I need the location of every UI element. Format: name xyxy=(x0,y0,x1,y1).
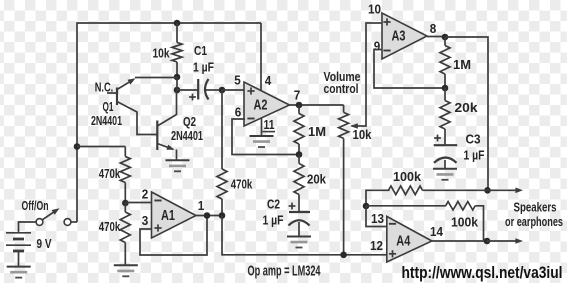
transistor Q2 collector xyxy=(157,90,176,126)
capacitor C3 plus sign xyxy=(434,135,441,142)
node bottom rail pot junction xyxy=(340,252,347,259)
label Off/On xyxy=(22,198,49,213)
svg-text:13: 13 xyxy=(371,211,384,226)
svg-text:1 µF: 1 µF xyxy=(263,213,284,228)
svg-text:470k: 470k xyxy=(99,166,121,181)
wire A3 output to right drop xyxy=(445,37,488,190)
node divider midpoint xyxy=(122,200,129,207)
label 100k feedback xyxy=(451,215,479,230)
label Q2 xyxy=(183,114,196,129)
transistor Q2 emitter xyxy=(157,144,176,162)
op-amp A2 minus sign xyxy=(247,118,254,120)
resistor 1M (A2) xyxy=(294,105,304,155)
svg-text:100k: 100k xyxy=(393,169,422,184)
capacitor C3 curved plate xyxy=(434,158,457,163)
label 470k middle xyxy=(231,177,253,192)
svg-text:20k: 20k xyxy=(307,172,327,187)
svg-text:A2: A2 xyxy=(254,97,268,114)
capacitor C1 wire right xyxy=(206,89,222,91)
op-amp A3 minus sign xyxy=(383,50,390,52)
ground below divider xyxy=(114,265,138,276)
resistor 20k (A2) xyxy=(294,155,304,213)
label 100k upper xyxy=(393,169,422,184)
label C2 1uF xyxy=(263,213,284,228)
ground below Q2 xyxy=(166,160,190,171)
svg-text:N.C.: N.C. xyxy=(95,80,114,95)
svg-text:Op amp = LM324: Op amp = LM324 xyxy=(248,263,321,280)
wire A3 pin 10 stub xyxy=(366,22,382,24)
node A4 inverting input xyxy=(363,203,370,210)
transistor Q1 emitter xyxy=(117,102,157,135)
op-amp A1 minus sign xyxy=(154,200,161,202)
wire battery to switch xyxy=(19,222,37,233)
svg-text:9 V: 9 V xyxy=(37,236,52,251)
op-amp U3 A4 xyxy=(387,216,432,262)
label 20k (A2) xyxy=(307,172,327,187)
label pin 9 xyxy=(374,39,381,54)
label 10k xyxy=(153,46,171,61)
capacitor C1 plus sign xyxy=(189,94,196,101)
wire speaker arrow 2 xyxy=(487,238,523,244)
svg-text:470k: 470k xyxy=(99,219,121,234)
resistor 470k upper xyxy=(120,147,130,204)
wire A1 output down to bottom rail xyxy=(221,216,223,256)
svg-text:Q2: Q2 xyxy=(183,114,196,129)
label pin 1 xyxy=(198,198,205,213)
node C1 to A2 pin5 xyxy=(219,87,226,94)
label pin 2 xyxy=(142,187,149,202)
svg-text:1: 1 xyxy=(198,198,205,213)
svg-text:10: 10 xyxy=(368,2,381,17)
ground below C3 xyxy=(433,169,457,180)
potentiometer 10k volume xyxy=(339,105,349,255)
svg-text:1 µF: 1 µF xyxy=(193,60,214,75)
op-amp U2 A3 xyxy=(382,13,427,59)
svg-text:C1: C1 xyxy=(194,43,207,58)
node C1 input junction xyxy=(174,87,181,94)
label Speakers xyxy=(514,200,557,215)
resistor 100k upper xyxy=(389,186,489,195)
wire A2 pin 11 to ground xyxy=(261,118,263,137)
svg-text:control: control xyxy=(324,81,359,96)
node junction top rail to 10k xyxy=(174,20,181,27)
svg-text:2N4401: 2N4401 xyxy=(171,128,203,143)
op-amp A3 plus sign xyxy=(383,18,390,25)
pot wiper arrow xyxy=(350,22,366,129)
svg-text:470k: 470k xyxy=(231,177,253,192)
switch arm xyxy=(43,208,60,220)
wire bottom rail xyxy=(222,254,386,256)
label C3 xyxy=(466,132,481,147)
node A2 output xyxy=(296,102,303,109)
capacitor C2 curved plate xyxy=(289,220,310,225)
wire top supply rail xyxy=(77,22,261,24)
resistor 20k (A3) xyxy=(440,88,450,146)
label C2 xyxy=(267,197,280,212)
svg-text:8: 8 xyxy=(430,21,437,36)
node A4 output xyxy=(484,238,491,245)
svg-text:5: 5 xyxy=(234,73,241,88)
label 1M (A3) xyxy=(453,57,471,72)
label C3 1uF xyxy=(464,148,485,163)
label Q2 2N4401 xyxy=(171,128,203,143)
wire A3 output xyxy=(427,36,445,38)
op-amp A4 minus sign xyxy=(389,223,396,225)
label pin 12 xyxy=(370,238,383,253)
wire A1 pin3 feedback xyxy=(140,216,207,256)
node A3 output xyxy=(442,34,449,41)
capacitor C3 flat plate xyxy=(434,144,458,146)
label pin 10 xyxy=(368,2,381,17)
svg-text:2: 2 xyxy=(142,187,149,202)
capacitor C2 flat plate xyxy=(289,211,310,213)
svg-text:2N4401: 2N4401 xyxy=(91,113,122,128)
label or earphones xyxy=(505,214,563,229)
label pin 14 xyxy=(430,224,444,239)
wire A1 output xyxy=(196,215,222,217)
svg-text:A3: A3 xyxy=(392,28,406,45)
svg-text:http://www.qsl.net/va3iul: http://www.qsl.net/va3iul xyxy=(402,263,563,282)
svg-text:11: 11 xyxy=(264,117,275,132)
svg-text:Off/On: Off/On xyxy=(22,198,49,213)
svg-text:A4: A4 xyxy=(396,233,410,250)
svg-text:12: 12 xyxy=(370,238,383,253)
wire speaker arrow 1 xyxy=(488,188,524,194)
op-amp A1 plus sign xyxy=(154,224,161,231)
label pin 6 xyxy=(235,105,242,120)
capacitor C2 plus sign xyxy=(289,203,296,210)
label pin 7 xyxy=(294,88,301,103)
label url http://www.qsl.net/va3iul xyxy=(402,263,563,282)
svg-text:1 µF: 1 µF xyxy=(464,148,485,163)
battery B1 9V xyxy=(6,233,31,267)
capacitor C1 curved plate xyxy=(205,79,209,100)
op-amp U1 A2 xyxy=(244,82,290,126)
svg-text:A1: A1 xyxy=(161,207,175,224)
wire A4 output xyxy=(431,240,487,242)
svg-text:1M: 1M xyxy=(453,57,471,72)
wire A2 output xyxy=(290,104,344,106)
wire corner to A4 node xyxy=(365,190,367,207)
ground below battery xyxy=(7,267,31,278)
wire A4 node to pin 13 xyxy=(366,206,386,227)
transistor Q1 base bar xyxy=(116,88,118,106)
node Q1 collector junction xyxy=(174,74,181,81)
resistor R 10k xyxy=(172,23,182,78)
label pin 8 xyxy=(430,21,437,36)
label N.C. xyxy=(95,80,114,95)
wire A2 pin 4 supply xyxy=(260,23,262,90)
capacitor C2 wire to ground xyxy=(298,222,300,237)
capacitor C3 wire to ground xyxy=(444,160,446,170)
wire C1 node down to 470k xyxy=(221,90,223,169)
wire A4 node to 100k feedback xyxy=(366,205,446,207)
wire speaker line 1 left xyxy=(366,189,390,191)
svg-text:6: 6 xyxy=(235,105,242,120)
resistor 470k middle xyxy=(217,169,227,216)
transistor Q1 collector xyxy=(117,78,177,90)
svg-text:10k: 10k xyxy=(353,127,373,142)
wire C1 node to A2 pin 5 xyxy=(222,89,245,91)
label pin 11 xyxy=(263,117,276,132)
label Volume xyxy=(324,69,361,84)
node left rail junction xyxy=(74,143,81,150)
label Q1 xyxy=(103,99,114,114)
wire rail between junctions xyxy=(176,77,178,91)
label C1 xyxy=(194,43,207,58)
label 470k lower xyxy=(99,219,121,234)
label pin 5 xyxy=(234,73,241,88)
label 20k (A3) xyxy=(455,100,479,115)
ground below C2 xyxy=(287,237,311,248)
node speaker line 1 xyxy=(484,187,491,194)
svg-text:14: 14 xyxy=(430,224,444,239)
svg-text:4: 4 xyxy=(265,73,272,88)
resistor 1M (A3) xyxy=(440,37,450,88)
label Op amp = LM324 xyxy=(248,263,321,280)
svg-text:3: 3 xyxy=(142,213,149,228)
wire A2 pin6 feedback xyxy=(232,119,299,155)
label 470k upper xyxy=(99,166,121,181)
svg-text:C2: C2 xyxy=(267,197,280,212)
transistor Q1 base wire (N.C.) xyxy=(107,92,117,94)
wire A3 pin9 feedback xyxy=(374,50,445,89)
ground A2 pin 11 xyxy=(250,136,274,147)
resistor 100k feedback xyxy=(446,202,484,241)
label 1M (A2) xyxy=(308,124,326,139)
node A3 feedback junction xyxy=(442,85,449,92)
wire divider to A1 pin 2 xyxy=(125,202,151,204)
svg-text:1M: 1M xyxy=(308,124,326,139)
wire rail to divider xyxy=(77,146,125,148)
svg-text:20k: 20k xyxy=(455,100,479,115)
svg-text:or earphones: or earphones xyxy=(505,214,563,229)
wire switch to rail xyxy=(71,221,77,223)
resistor 470k lower xyxy=(120,203,130,266)
label 10k pot xyxy=(353,127,373,142)
label 9 V xyxy=(37,236,52,251)
op-amp A4 plus sign xyxy=(389,250,396,257)
svg-text:10k: 10k xyxy=(153,46,171,61)
wire left supply rail xyxy=(76,22,78,222)
label pin 13 xyxy=(371,211,384,226)
switch contact right xyxy=(64,219,71,226)
node A1 feedback junction xyxy=(204,212,211,219)
capacitor C1 flat plate xyxy=(197,79,199,100)
transistor Q2 base bar xyxy=(156,121,158,151)
switch contact left xyxy=(36,219,43,226)
svg-text:C3: C3 xyxy=(466,132,481,147)
label Q1 2N4401 xyxy=(91,113,122,128)
label C1 1uF xyxy=(193,60,214,75)
svg-text:Q1: Q1 xyxy=(103,99,114,114)
op-amp A2 plus sign xyxy=(247,87,254,94)
svg-text:Speakers: Speakers xyxy=(514,200,557,215)
label pin 4 xyxy=(265,73,272,88)
node A2 feedback junction xyxy=(296,151,303,158)
label pin 3 xyxy=(142,213,149,228)
svg-text:100k: 100k xyxy=(451,215,479,230)
label control xyxy=(324,81,359,96)
op-amp U4 A1 xyxy=(152,192,197,238)
node A1 output junction xyxy=(219,212,226,219)
capacitor C1 wire left xyxy=(177,89,198,91)
svg-text:7: 7 xyxy=(294,88,301,103)
